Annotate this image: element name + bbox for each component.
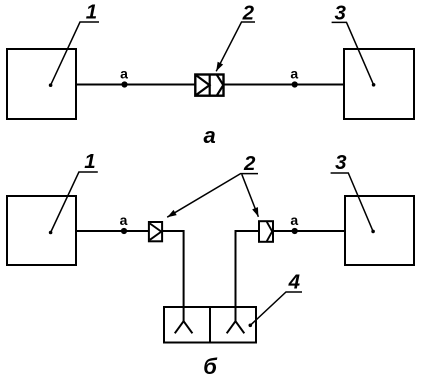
svg-text:a: a: [120, 212, 128, 228]
leader line for label 1 (bottom): [49, 172, 98, 234]
wire: plug to tester (corner down): [162, 231, 184, 307]
coupling divider: [209, 74, 211, 96]
leader line with arrow for label 2 (top): [216, 22, 255, 71]
coupling right chevron (socket): [217, 74, 224, 96]
node a dot (top right): [292, 81, 298, 87]
socket chevron: [267, 222, 272, 241]
wire: box1 to plug half (bottom): [76, 230, 149, 232]
wire: coupling to box3 (top): [222, 84, 344, 86]
node a dot (top left): [121, 81, 127, 87]
block 1 (bottom left box): [7, 196, 76, 265]
leader line for label 1 (top): [49, 22, 99, 87]
wire: tester up to socket (corner): [236, 231, 260, 307]
block 3 (bottom right box): [345, 196, 414, 265]
block 3 (top right box): [344, 49, 414, 119]
svg-text:a: a: [290, 212, 298, 228]
svg-text:2: 2: [243, 152, 256, 175]
node a dot (bottom right): [292, 228, 298, 234]
tester divider: [209, 307, 211, 343]
svg-text:4: 4: [288, 271, 301, 294]
coupling symbol 2 (top): outer box: [195, 75, 223, 96]
svg-text:1: 1: [86, 0, 97, 23]
socket half symbol (bottom right of pair): [259, 221, 273, 242]
leader line for label 4: [249, 292, 303, 327]
tester block 4 (double box): [164, 307, 256, 343]
tester Y symbol right: [227, 307, 245, 333]
svg-text:a: a: [290, 66, 298, 82]
plug half symbol (bottom left of pair): [149, 222, 162, 241]
leader 2 arrows (bottom): [167, 174, 258, 218]
wire: socket to box3 (bottom): [273, 230, 346, 232]
block 1 (top left box): [7, 49, 76, 119]
plug triangle: [150, 224, 161, 240]
node a dot (bottom left): [121, 228, 127, 234]
leader line for label 3 (top): [332, 22, 376, 86]
svg-text:1: 1: [84, 150, 95, 173]
wire: box1 to coupling (top): [76, 84, 196, 86]
svg-text:3: 3: [335, 151, 347, 174]
leader line for label 3 (bottom): [331, 173, 375, 233]
svg-text:а: а: [203, 123, 215, 148]
svg-text:б: б: [203, 354, 218, 379]
tester Y symbol left: [175, 307, 193, 333]
coupling left triangle (plug): [197, 76, 210, 95]
svg-text:3: 3: [334, 1, 346, 24]
svg-text:a: a: [120, 66, 128, 82]
svg-text:2: 2: [242, 2, 255, 25]
